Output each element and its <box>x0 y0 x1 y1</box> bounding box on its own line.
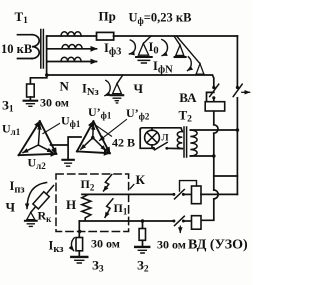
heater element H zigzag <box>82 194 91 220</box>
node star-N junction <box>45 73 49 77</box>
svg-text:INз: INз <box>82 82 99 99</box>
svg-text:Iф3: Iф3 <box>104 41 121 58</box>
switch contact upper right <box>236 86 239 89</box>
wire T2 primary top lead <box>190 129 237 131</box>
wire RCD coil1 to right vertical <box>201 193 237 195</box>
resistor Z1 30 om <box>27 84 35 97</box>
phase line A after fuse <box>114 35 238 37</box>
svg-text:Uф1: Uф1 <box>61 114 81 130</box>
svg-text:Ч: Ч <box>6 200 16 215</box>
svg-text:Н: Н <box>66 197 76 212</box>
phase line C <box>47 61 96 63</box>
wire VA vertical to bottom rect <box>201 199 214 221</box>
svg-text:Т2: Т2 <box>179 108 193 125</box>
svg-text:К: К <box>136 172 146 187</box>
fault triangle on N <box>196 64 204 74</box>
svg-text:IфN: IфN <box>153 59 173 76</box>
svg-text:N: N <box>60 79 70 94</box>
wire Z1 branch <box>30 75 46 84</box>
node Z2 tap <box>141 219 145 223</box>
svg-text:З2: З2 <box>137 258 149 275</box>
phase line A (top) <box>47 35 96 37</box>
wire lamp top <box>140 128 182 132</box>
fault bar Rk <box>25 220 37 222</box>
breakdown bolt P1 <box>105 199 113 218</box>
wire Z3 drop <box>78 221 80 238</box>
loop wire to right vertical <box>214 175 238 177</box>
wire right vertical continues <box>236 98 238 195</box>
svg-text:З3: З3 <box>92 258 104 275</box>
current arc INz <box>105 80 110 95</box>
switch trip arrow right <box>242 91 250 93</box>
wire to RCD coil 1 <box>183 193 191 195</box>
RCD coil 1 rectangle <box>192 186 202 204</box>
winding coil phase A <box>61 32 81 36</box>
resistor Z2 30 om <box>139 229 145 241</box>
RCD coil 2 rectangle <box>192 216 202 230</box>
current arc IfN <box>188 57 192 71</box>
transformer T1 primary stubs <box>18 35 33 59</box>
svg-text:Uл2: Uл2 <box>28 156 47 172</box>
fault triangle If3 <box>138 44 148 56</box>
transformer T2 core <box>184 127 187 157</box>
svg-text:I0: I0 <box>149 40 159 57</box>
fuse Pr <box>97 32 114 40</box>
svg-text:З1: З1 <box>2 98 14 115</box>
wire VA vertical lower <box>213 133 215 190</box>
fault triangle I0 <box>176 45 184 55</box>
svg-text:U’ф2: U’ф2 <box>126 106 150 122</box>
wire Z2 drop <box>142 221 144 229</box>
winding coil phase C <box>61 57 81 61</box>
svg-text:ВА: ВА <box>179 90 197 105</box>
wire bottom load conductor <box>79 220 172 222</box>
svg-text:30 ом: 30 ом <box>40 96 69 110</box>
transformer T2 primary winding <box>190 130 197 156</box>
hop of VA wire over T2 top lead <box>214 125 218 133</box>
fault triangle Rk <box>27 212 35 219</box>
fault bar I0 <box>175 56 186 58</box>
switch contact VA <box>212 86 215 89</box>
hop of VA wire over top load wire <box>214 190 218 199</box>
fault slant person Ch on N <box>117 75 123 84</box>
phasor triangle 1 sides <box>19 121 40 155</box>
svg-text:U’ф1: U’ф1 <box>88 105 112 121</box>
transformer T1 primary winding <box>32 35 39 59</box>
svg-text:Uл1: Uл1 <box>2 122 21 138</box>
current arc Ipz <box>27 183 47 209</box>
wire lamp left to switch <box>140 130 153 149</box>
earth hatch If3 <box>138 60 149 63</box>
svg-text:ВД (УЗО): ВД (УЗО) <box>188 238 248 253</box>
svg-text:Uф=0,23 кВ: Uф=0,23 кВ <box>129 11 192 27</box>
phasor triangle 2 vectors from shifted neutral <box>92 125 95 138</box>
transformer T1 core <box>41 30 44 69</box>
svg-text:10 кВ: 10 кВ <box>1 42 32 56</box>
switch RCD top <box>172 193 175 196</box>
fault slant phase A to N wire <box>177 36 201 64</box>
VA bypass wire <box>207 92 214 101</box>
wire from triangle1 to ground <box>51 137 82 159</box>
node Z3 at enclosure <box>78 230 81 233</box>
dashed enclosure K <box>56 174 129 232</box>
transformer T2 secondary winding <box>177 132 182 149</box>
svg-text:42 В: 42 В <box>112 136 135 150</box>
wire top load conductor <box>82 193 173 195</box>
leader U'f2 <box>100 120 127 141</box>
transformer T1 star point vertical <box>46 36 49 75</box>
leader 42 V <box>96 126 112 137</box>
lamp L circle <box>145 130 160 145</box>
leader Uf1 <box>43 124 60 134</box>
breaker VA rectangle <box>205 102 225 111</box>
wire VA vertical <box>213 98 215 125</box>
node T2 primary bottom <box>212 154 216 158</box>
switch trip arrow down <box>179 226 181 232</box>
ground Z1 <box>24 100 38 102</box>
svg-text:Iкз: Iкз <box>49 239 64 256</box>
node T2 primary top on right wire <box>236 128 240 132</box>
fault bar on N <box>196 73 204 75</box>
switch RCD bottom <box>172 220 175 223</box>
svg-text:30 ом: 30 ом <box>157 237 186 251</box>
fault triangle Ch <box>113 84 122 94</box>
svg-text:Л: Л <box>162 134 169 144</box>
ground between triangles <box>62 159 73 161</box>
svg-text:Ч: Ч <box>134 81 144 96</box>
phasor triangle 2 sides <box>77 121 94 151</box>
fault slant phase A to earth (If3) <box>143 36 151 44</box>
svg-text:П2: П2 <box>81 177 95 193</box>
wire switch to T2 secondary bottom <box>167 147 183 149</box>
wire Z3 to ground <box>78 251 80 256</box>
resistor Z3 30 om <box>76 238 83 251</box>
wire to ground Z1 <box>29 97 31 100</box>
breakdown bolt P2 <box>104 175 112 192</box>
svg-text:30 ом: 30 ом <box>91 237 120 251</box>
current arc Ikz <box>71 238 74 251</box>
wire T2 primary bottom lead <box>190 155 214 157</box>
fault bar If3 <box>136 56 152 58</box>
winding coil phase B <box>62 44 82 48</box>
ground Z2 <box>135 246 149 248</box>
wire Rk slant <box>31 186 54 213</box>
wire Z2 to ground <box>142 240 144 246</box>
wire right vertical phase drop <box>236 36 238 86</box>
wire N line <box>47 75 213 86</box>
node shifted neutral <box>91 136 95 140</box>
switch contact lamp <box>152 147 155 150</box>
current arc I0 <box>162 40 168 56</box>
leader K tick <box>130 185 134 189</box>
svg-text:Iпз: Iпз <box>10 179 25 196</box>
fault slant I0 <box>174 36 180 45</box>
lamp L cross <box>147 132 157 142</box>
svg-text:Т1: Т1 <box>15 9 29 26</box>
resistor Rk <box>33 192 49 209</box>
phase line B <box>47 48 96 50</box>
phasor triangle 1 center vectors <box>38 125 39 146</box>
fault bar Ch <box>111 94 124 96</box>
wire to RCD coil 2 <box>183 220 191 222</box>
earth hatch Ch <box>113 98 120 103</box>
RCD release loop <box>180 181 197 191</box>
svg-text:Пр: Пр <box>99 9 116 24</box>
ground Z3 <box>71 256 87 258</box>
svg-text:П1: П1 <box>114 201 128 217</box>
earth hatch Rk <box>27 224 34 227</box>
svg-text:Rк: Rк <box>38 209 53 225</box>
current arc If3 <box>129 40 135 54</box>
